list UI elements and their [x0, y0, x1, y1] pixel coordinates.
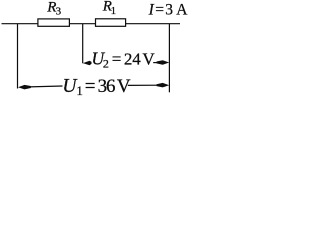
- svg-text:1: 1: [76, 83, 83, 96]
- svg-text:1: 1: [111, 5, 117, 17]
- U2 measurement left arrow: [83, 61, 92, 65]
- svg-text:3: 3: [56, 6, 62, 18]
- U1 wire stub right: [128, 84, 160, 86]
- wire left vertical drop: [17, 24, 19, 89]
- U1 measurement left arrow: [18, 85, 31, 90]
- svg-text:=36V: =36V: [85, 76, 131, 96]
- wire right vertical drop: [168, 24, 170, 93]
- U1 wire stub left: [29, 85, 63, 88]
- wire top horizontal: [2, 23, 181, 25]
- svg-text:2: 2: [103, 56, 109, 70]
- U1 measurement right arrow: [157, 83, 170, 88]
- resistor R1: [96, 19, 126, 27]
- U2 measurement right arrow: [157, 60, 170, 64]
- wire middle vertical drop: [82, 24, 84, 64]
- resistor R3: [38, 19, 70, 26]
- U2 wire stub right: [153, 62, 162, 64]
- svg-text:I=3A: I=3A: [148, 2, 189, 19]
- svg-text:=24V: =24V: [112, 49, 156, 68]
